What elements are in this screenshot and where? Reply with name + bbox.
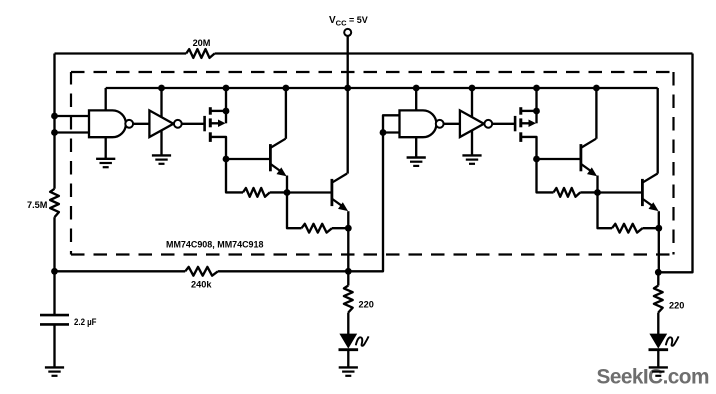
wire: U1b output to M1 gate: [182, 123, 205, 125]
NAND gate U2a output bubble: [436, 120, 444, 128]
MOSFET M2 drain stub: [521, 110, 537, 112]
MOSFET M2 source stub: [521, 137, 537, 159]
MOSFET M1 source stub: [210, 137, 226, 159]
wire: U2b VCC pin: [471, 88, 473, 118]
resistor R6 220 LED1 limiter: [344, 286, 353, 313]
wire: Q2 emitter down to node E: [347, 211, 349, 228]
NAND gate U2a body: [400, 110, 437, 137]
svg-text:SeekIC.com: SeekIC.com: [597, 366, 709, 389]
wire: Q3 emitter down to node H: [596, 176, 598, 193]
transistor Q1 base bar: [269, 144, 272, 171]
MOSFET M1 drain/body junction dot: [223, 108, 230, 115]
LED LED1 anode triangle: [339, 334, 357, 349]
wire: node G to Q3 base: [537, 158, 581, 160]
wire: left bus below R2 to node B: [53, 217, 55, 271]
resistor R2 7.5M on left bus: [50, 189, 59, 217]
wire: outer loop right edge down to node F2: [658, 54, 692, 273]
LED LED1 emission squiggle: [356, 336, 369, 345]
junction dot U1b VCC on rail: [158, 85, 165, 92]
junction dot node H: [594, 189, 601, 196]
wire: node C to Q1 base: [226, 158, 270, 160]
inverter U2b output bubble: [484, 120, 492, 128]
svg-text:2.2 µF: 2.2 µF: [74, 317, 97, 327]
wire: node F1 feedback to U2a inputs: [348, 115, 399, 271]
ground symbol under LED2: [649, 366, 668, 368]
inverter U1b triangle: [149, 110, 173, 137]
wire: node E down to output node F1: [347, 228, 349, 271]
wire: node F2 to R9: [657, 272, 659, 285]
junction dot node J: [655, 225, 662, 232]
LED LED1 cathode bar: [339, 348, 359, 351]
junction dot node F1: [345, 268, 352, 275]
wire: U1b VCC pin: [160, 88, 162, 118]
wire: U2a ground pin: [415, 137, 417, 157]
wire: U2b ground pin: [471, 130, 473, 155]
junction dot node A lower input: [51, 129, 58, 136]
transistor Q1 emitter with arrow: [271, 164, 282, 172]
wire: U1a VCC pin: [105, 88, 107, 110]
wire: M2 drain to VCC rail: [535, 88, 537, 123]
svg-text:220: 220: [669, 301, 684, 311]
wire: node B to C1: [53, 271, 55, 315]
resistor R1 20M on top feedback wire: [186, 49, 214, 58]
ground symbol under U1a: [96, 158, 115, 160]
MOSFET M2 drain/body junction dot: [533, 108, 540, 115]
wire: left input bus vertical node A: [53, 54, 55, 189]
junction dot M1 source node C: [223, 156, 230, 163]
LED LED2 anode triangle: [649, 334, 667, 349]
MOSFET M1 gate bar: [203, 116, 206, 131]
wire: C1 to ground: [53, 324, 55, 367]
junction dot node A upper input: [51, 113, 58, 120]
NAND gate U1a output bubble: [125, 120, 133, 128]
wire: R9 to LED2: [657, 313, 659, 335]
inverter U1b output bubble: [174, 120, 182, 128]
transistor Q3 base bar: [580, 144, 583, 171]
dashed IC package boundary left edge: [70, 72, 72, 255]
transistor Q3 collector: [582, 139, 597, 148]
wire: M1 drain to VCC rail: [225, 88, 227, 123]
wire: U2a lower input stub: [383, 131, 400, 133]
ground symbol under U2b: [462, 154, 481, 156]
transistor Q1 collector: [271, 139, 286, 148]
wire: U2b output to M2 gate: [492, 123, 515, 125]
wire: LED1 to ground: [347, 350, 349, 368]
ground symbol under U2a: [407, 156, 426, 158]
wire: U1b ground pin: [160, 130, 162, 155]
wire: VCC vertical feed down to Q2 collector: [347, 36, 349, 174]
junction dot node F2: [655, 269, 662, 276]
wire: Q1 collector to VCC rail: [285, 88, 287, 139]
MOSFET M2 body arrow: [521, 122, 530, 124]
junction dot node B: [51, 268, 58, 275]
junction dot U2b VCC on rail: [469, 85, 476, 92]
MOSFET M1 channel segments: [209, 107, 212, 115]
ground symbol under C1: [45, 366, 64, 368]
MOSFET M1 body arrow: [210, 122, 219, 124]
junction dot node D: [284, 189, 291, 196]
junction dot Q3 collector on rail: [593, 85, 600, 92]
capacitor C1 bottom plate: [40, 323, 69, 326]
wire: Q4 emitter down to node J: [658, 211, 660, 228]
wire: internal VCC rail: [106, 87, 658, 89]
wire: U2a output to U2b input: [444, 123, 460, 125]
ground symbol under U1b: [152, 154, 171, 156]
wire: R3 to node F1: [218, 270, 348, 272]
resistor R8 Q4 base-emitter: [598, 193, 613, 229]
transistor Q2 base bar: [330, 179, 333, 206]
junction dot M1 on rail: [223, 85, 230, 92]
wire: node B to resistor R3: [55, 270, 186, 272]
junction dot U2a VCC on rail: [413, 85, 420, 92]
MOSFET M2 channel segments: [519, 107, 522, 115]
wire: Q1 emitter down to node D: [286, 176, 288, 193]
resistor R5 Q2 base-emitter: [287, 193, 302, 229]
wire: node D to Q2 base: [287, 191, 332, 193]
dashed IC package boundary top edge: [71, 71, 674, 73]
junction dot U2a lower input: [380, 129, 387, 136]
transistor Q4 collector: [643, 174, 658, 183]
ground symbol under LED1: [339, 366, 358, 368]
wire: outer feedback loop top rail: [55, 52, 187, 54]
wire: R6 to LED1: [347, 313, 349, 335]
svg-text:220: 220: [359, 300, 374, 310]
transistor Q2 emitter with arrow: [333, 199, 344, 207]
wire: Q3 collector to VCC rail: [595, 88, 597, 139]
junction dot M2 source node G: [533, 156, 540, 163]
capacitor C1 2.2uF top plate: [40, 314, 69, 317]
svg-text:240k: 240k: [191, 280, 212, 290]
junction dot M2 on rail: [533, 85, 540, 92]
svg-text:20M: 20M: [193, 38, 211, 48]
svg-text:7.5M: 7.5M: [27, 200, 48, 210]
junction dot VCC rail / VCC feed: [344, 85, 351, 92]
transistor Q2 collector: [333, 174, 348, 183]
MOSFET M1 drain stub: [210, 110, 226, 112]
dashed IC package boundary bottom edge: [71, 253, 674, 255]
resistor R3 240k coupling: [185, 267, 218, 276]
junction dot node E: [345, 225, 352, 232]
dashed IC package boundary right edge: [672, 72, 674, 255]
transistor Q3 emitter with arrow: [582, 164, 593, 172]
LED LED2 cathode bar: [649, 348, 669, 351]
resistor R9 220 LED2 limiter: [654, 286, 663, 313]
transistor Q4 emitter with arrow: [643, 199, 654, 207]
transistor Q4 base bar: [641, 179, 644, 206]
wire: U1a output to U1b input: [133, 123, 149, 125]
resistor R4 Q1 base-emitter: [226, 159, 243, 192]
inverter U2b triangle: [460, 110, 484, 137]
resistor R7 Q3 base-emitter: [537, 159, 554, 192]
wire: node J down to output node F2: [658, 228, 660, 272]
wire: Q4 collector up to VCC rail right end: [657, 88, 659, 174]
svg-text:MM74C908, MM74C918: MM74C908, MM74C918: [166, 239, 264, 250]
wire: NAND U1a input stubs from node A: [55, 115, 90, 117]
LED LED2 emission squiggle: [666, 336, 679, 345]
wire: U2a VCC pin: [415, 88, 417, 110]
wire: node H to Q4 base: [598, 191, 643, 193]
wire: node F1 to R6: [347, 271, 349, 285]
wire: LED2 to ground: [657, 350, 659, 368]
NAND gate U1a body: [89, 110, 126, 137]
MOSFET M2 gate bar: [514, 116, 517, 131]
wire: U1a ground pin: [105, 137, 107, 159]
power terminal VCC = 5V: [344, 29, 351, 36]
junction dot Q1 collector on rail: [283, 85, 290, 92]
